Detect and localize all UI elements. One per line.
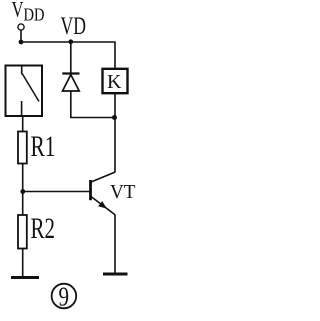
- svg-text:VD: VD: [61, 13, 87, 40]
- relay coil K box: [103, 69, 128, 93]
- wire VDD terminal to top bus: [20, 30, 22, 43]
- junction collector node: [112, 115, 117, 120]
- junction base node: [20, 189, 25, 194]
- junction diode tap: [68, 39, 73, 44]
- svg-text:9: 9: [59, 281, 70, 311]
- diode VD triangle: [63, 75, 80, 91]
- reed switch top lead: [21, 65, 23, 75]
- svg-text:V: V: [12, 0, 24, 22]
- svg-text:R2: R2: [31, 212, 56, 245]
- reed switch blade: [22, 74, 39, 102]
- wire base: [23, 191, 90, 193]
- svg-text:K: K: [107, 71, 122, 93]
- svg-text:R1: R1: [31, 130, 56, 163]
- transistor VT emitter arrow: [98, 201, 107, 209]
- transistor VT base bar: [89, 180, 92, 200]
- VDD terminal: [18, 24, 24, 30]
- ground right: [103, 273, 128, 276]
- svg-text:VT: VT: [110, 181, 136, 203]
- transistor VT collector: [91, 172, 115, 182]
- diode VD cathode bar: [62, 72, 79, 74]
- resistor R2 body: [18, 215, 27, 249]
- wire K bottom to collector node: [114, 94, 116, 118]
- wire R1 to R2: [22, 164, 24, 216]
- wire emitter to ground: [114, 215, 116, 274]
- wire box to R1: [22, 116, 24, 132]
- power label VDD: [12, 0, 45, 25]
- resistor R1 body: [18, 132, 27, 164]
- reed switch box: [6, 66, 43, 117]
- wire R2 to ground: [22, 249, 24, 278]
- diode VD bottom wire: [71, 91, 115, 118]
- ground left: [11, 276, 39, 279]
- svg-text:DD: DD: [24, 5, 45, 25]
- wire collector node down: [114, 118, 116, 173]
- figure number 9 circle: [52, 284, 77, 309]
- diode VD anode wire: [70, 42, 72, 74]
- transistor VT emitter: [91, 197, 115, 215]
- junction VDD node: [19, 40, 24, 45]
- wire top bus: [21, 42, 115, 68]
- reed switch bottom lead: [21, 101, 23, 117]
